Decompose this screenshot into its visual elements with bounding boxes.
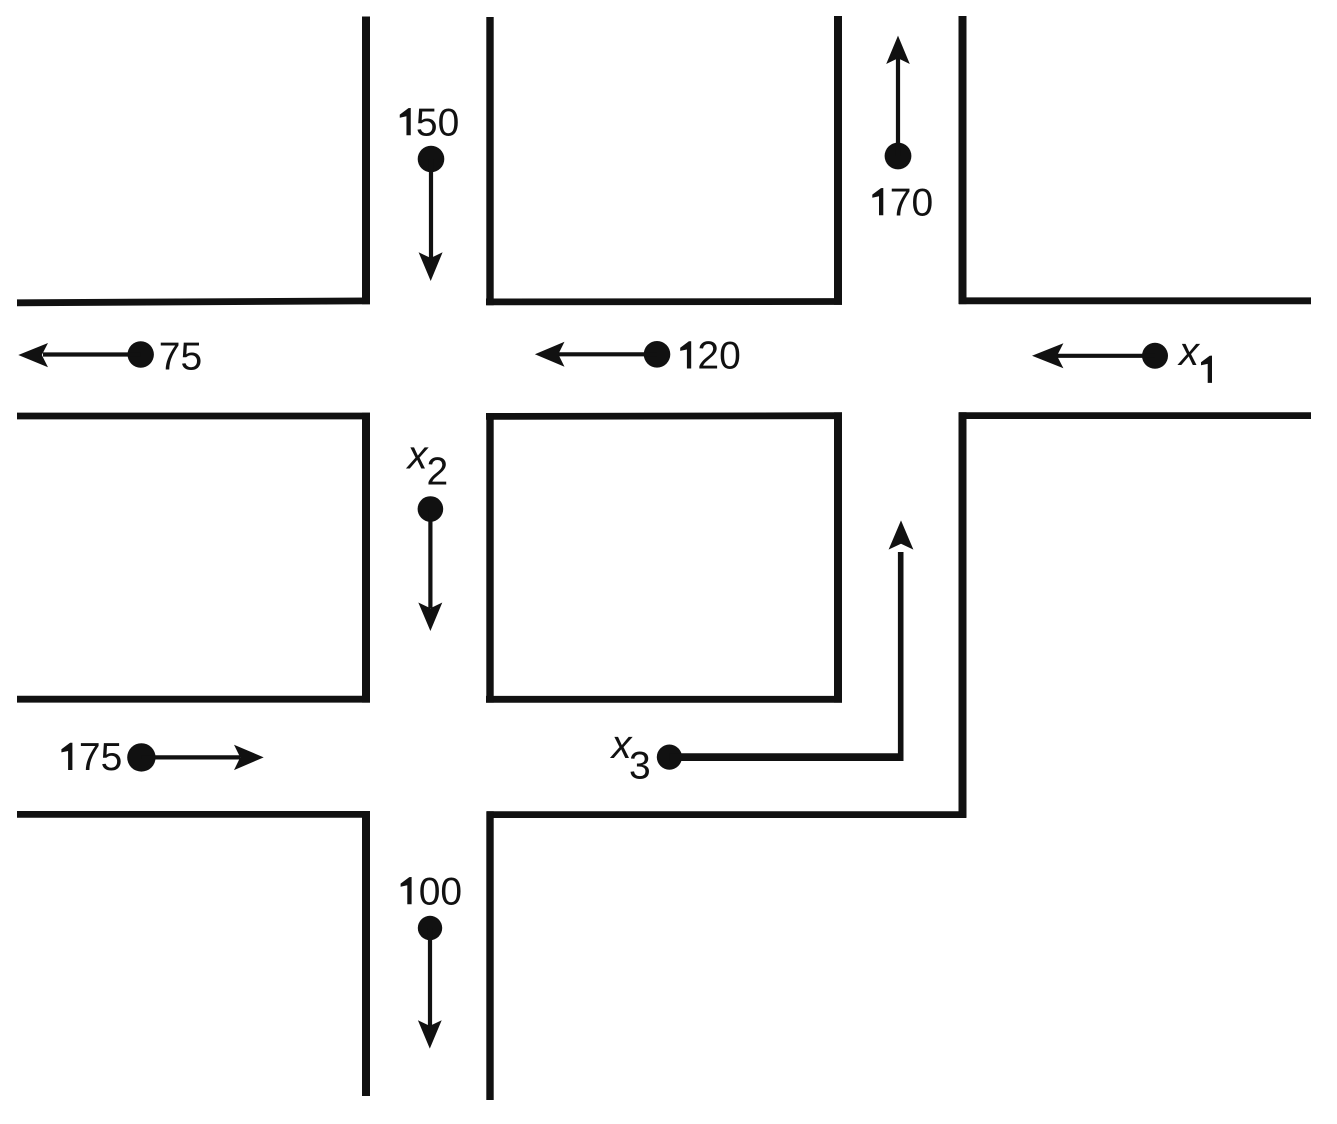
svg-text:00: 00 xyxy=(419,870,462,913)
label: 100 xyxy=(401,870,462,913)
wire: arrow shaft 170 (upward) xyxy=(896,58,900,156)
arrowhead: 170 up xyxy=(886,36,910,64)
wire: curb H1 left segment xyxy=(17,301,370,303)
wire: arrow shaft 175 (rightward) xyxy=(141,755,240,759)
svg-text:50: 50 xyxy=(416,101,459,144)
wire: x3 horizontal segment xyxy=(669,753,903,761)
wire: curb V3 middle segment (rect right) xyxy=(834,412,842,702)
wire: curb H3 middle segment (rect bottom) xyxy=(486,696,842,703)
node dot: flow x3 xyxy=(657,745,682,770)
label: 175 xyxy=(61,736,122,779)
wire: curb V4 top segment xyxy=(959,16,967,304)
wire: arrow shaft x2 (downward) xyxy=(428,509,432,608)
label: 170 xyxy=(872,181,933,224)
wire: curb H4 middle segment xyxy=(487,811,966,818)
wire: curb H2 right segment xyxy=(959,412,1311,419)
svg-text:3: 3 xyxy=(629,744,651,787)
svg-text:2: 2 xyxy=(427,451,449,494)
wire: curb V2 bottom segment xyxy=(486,811,493,1100)
label: 120 xyxy=(680,335,741,378)
node dot: flow 120 xyxy=(644,341,671,368)
node dot: flow 75 xyxy=(128,341,154,367)
svg-text:x: x xyxy=(1177,330,1201,374)
wire: curb V4 middle segment xyxy=(959,412,967,818)
node dot: flow 170 xyxy=(885,143,912,170)
wire: curb V1 middle segment xyxy=(362,413,370,703)
label: x1 xyxy=(1177,330,1212,383)
arrowhead: 75 left xyxy=(18,343,48,367)
wire: arrow shaft 150 (downward) xyxy=(429,159,433,259)
wire: arrow shaft x1 (leftward) xyxy=(1055,354,1155,358)
label: 150 xyxy=(400,101,460,144)
arrowhead: 120 left xyxy=(535,342,565,367)
arrowhead: x2 down xyxy=(418,603,442,632)
arrowhead: 100 down xyxy=(418,1020,442,1048)
wire: curb V2 top segment xyxy=(486,17,493,305)
wire: arrow shaft 100 (downward) xyxy=(428,928,432,1026)
wire: curb H3 left segment xyxy=(17,696,370,703)
label: x3 xyxy=(610,723,651,787)
wire: curb V1 bottom segment xyxy=(362,811,370,1096)
svg-text:20: 20 xyxy=(697,335,740,378)
arrowhead: x3 up xyxy=(889,520,914,549)
wire: x3 vertical segment (up) xyxy=(898,552,904,760)
svg-text:70: 70 xyxy=(890,181,933,224)
wire: curb V2 middle segment (rect left) xyxy=(486,413,493,703)
arrowhead: 175 right xyxy=(234,745,264,770)
wire: curb H1 middle segment xyxy=(486,298,842,305)
wire: curb V1 top segment xyxy=(362,17,370,305)
node dot: flow x1 xyxy=(1142,343,1168,369)
node dot: flow 175 xyxy=(127,743,155,771)
arrowhead: 150 down xyxy=(419,252,443,281)
wire: arrow shaft 120 (leftward) xyxy=(558,352,657,356)
node dot: flow 150 xyxy=(418,146,445,173)
wire: curb H1 right segment xyxy=(959,297,1311,304)
svg-text:75: 75 xyxy=(79,736,122,779)
wire: curb H2 left segment xyxy=(17,413,370,420)
node dot: flow 100 xyxy=(418,916,442,940)
arrowhead: x1 left xyxy=(1032,343,1063,368)
node dot: flow x2 xyxy=(418,496,444,522)
wire: curb V3 top segment xyxy=(834,16,842,305)
wire: curb H2 middle segment (rect top) xyxy=(486,412,842,419)
wire: arrow shaft 75 (leftward) xyxy=(43,352,141,356)
label: x2 xyxy=(406,434,449,494)
svg-text:75: 75 xyxy=(159,336,202,379)
wire: curb H4 left segment xyxy=(17,811,370,818)
